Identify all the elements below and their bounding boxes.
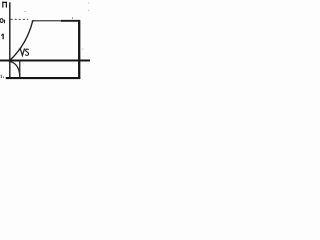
- Vs curve (rising, saturating): [10, 21, 33, 60]
- label marks bottom-left (clipped): [1, 75, 4, 79]
- label 1: [1, 34, 4, 40]
- label o1 (clipped at left edge): [0, 18, 5, 23]
- label Vs: [20, 48, 28, 55]
- vertical segment below axis: [19, 61, 21, 78]
- main horizontal axis line (full width): [0, 59, 90, 61]
- small tick above top line near corner: [71, 17, 74, 19]
- bottom thick trace line: [6, 77, 80, 79]
- quarter arc below axis: [10, 62, 19, 78]
- label n (top of y-axis): [2, 2, 7, 8]
- top saturation line: [32, 20, 80, 22]
- y-axis: [9, 2, 11, 78]
- dashed level line: [11, 18, 29, 20]
- faint scan specks: [24, 10, 26, 13]
- right vertical thick trace line: [78, 20, 80, 79]
